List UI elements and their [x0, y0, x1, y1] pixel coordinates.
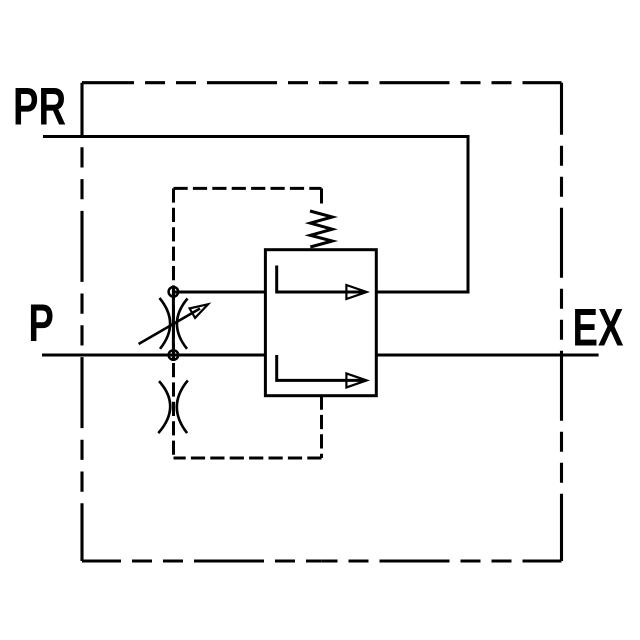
- svg-text:PR: PR: [13, 77, 66, 136]
- svg-text:P: P: [28, 294, 53, 353]
- svg-text:EX: EX: [573, 299, 624, 358]
